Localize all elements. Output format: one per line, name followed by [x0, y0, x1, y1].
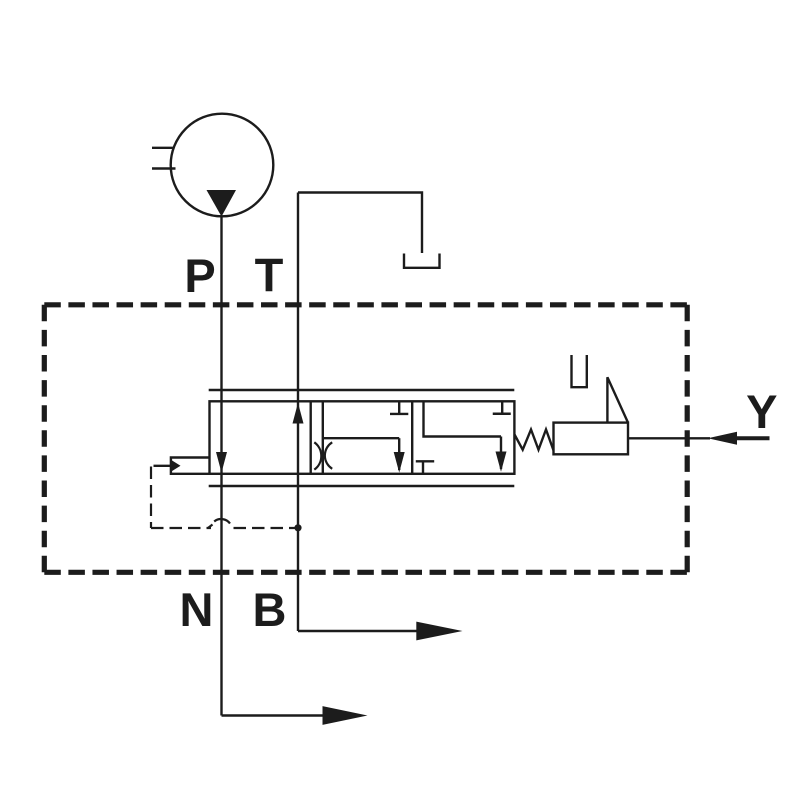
actuator A1 flag triangle	[607, 377, 628, 422]
svg-text:N: N	[180, 583, 214, 636]
pilot inlet tab on left of envelope	[171, 458, 210, 474]
arrow N outlet (filled, pointing right)	[323, 706, 368, 725]
valve V1 envelope divider 2	[411, 401, 413, 474]
valve V1 lower rail line	[209, 485, 515, 487]
envelope 1 flow arrow B->T (up, filled head)	[293, 403, 304, 424]
throttle (restriction) arcs	[314, 442, 332, 469]
envelope 3 blocked port bottom (T symbol)	[416, 461, 434, 474]
valve V1 envelope body	[210, 401, 515, 474]
wire T/B : vertical line from tank run down through valve to B corner	[297, 193, 299, 632]
svg-text:T: T	[255, 249, 284, 302]
arrow B outlet (filled, pointing right)	[416, 622, 462, 641]
wire B outlet corner	[298, 630, 417, 632]
pilot control dashed line horizontal (left of hop)	[151, 527, 211, 529]
pilot inlet arrow head (filled, pointing right)	[171, 460, 181, 472]
pump M1 flow triangle (filled, pointing down)	[207, 190, 237, 217]
actuator vent U symbol	[572, 355, 587, 387]
envelope 3 blocked port top (T symbol)	[493, 401, 511, 413]
envelope 1 flow arrow P->N (down, filled head)	[216, 452, 227, 473]
tank symbol	[404, 254, 440, 268]
junction dot on wire B	[294, 524, 301, 531]
envelope 3 flow arrow (down, filled head)	[496, 437, 507, 472]
pilot control dashed line horizontal (right of hop)	[234, 527, 297, 529]
Y pilot arrow head (filled, pointing left)	[708, 432, 737, 445]
spring (return spring zigzag)	[515, 430, 554, 451]
pump drain tick upper	[152, 147, 175, 149]
envelope 2 flow line with branch	[323, 401, 399, 474]
actuator A1 body (proportional pilot box)	[554, 423, 629, 455]
wire P : pump outlet down through valve to N corner	[220, 217, 222, 716]
valve V1 upper rail line	[209, 389, 515, 391]
svg-text:Y: Y	[746, 385, 777, 438]
pump drain tick lower	[152, 167, 176, 169]
pilot inlet arrow line	[154, 465, 172, 467]
pump M1 circle	[171, 114, 274, 217]
envelope 2 flow arrow (down, filled head)	[394, 438, 405, 472]
wire Y inlet stub	[737, 436, 770, 440]
envelope 2 blocked port top (T symbol)	[390, 401, 408, 414]
wire T horizontal run to tank	[298, 193, 422, 254]
enclosure left edge	[42, 305, 47, 573]
enclosure (dashed subplate boundary) top edge	[44, 302, 687, 307]
envelope 3 flow line with corner	[424, 401, 502, 436]
valve V1 envelope divider 1	[310, 401, 312, 474]
wire N outlet corner	[222, 714, 323, 716]
wire Y pilot line from actuator	[628, 437, 710, 439]
enclosure bottom edge	[44, 570, 687, 575]
svg-text:B: B	[253, 583, 287, 636]
svg-text:P: P	[184, 249, 215, 302]
pilot control dashed line vertical	[150, 467, 152, 529]
crossover hop over wire P	[208, 519, 230, 528]
enclosure right edge	[685, 305, 690, 573]
